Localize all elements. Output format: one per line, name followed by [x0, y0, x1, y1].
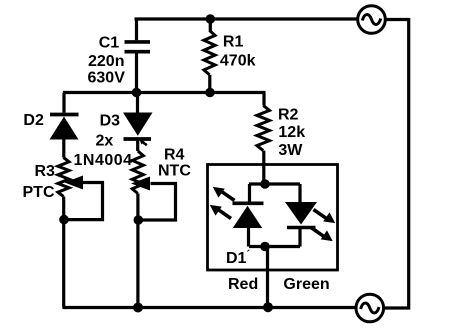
svg-text:470k: 470k: [220, 52, 256, 69]
resistor R1: [204, 19, 215, 93]
svg-text:2x: 2x: [96, 133, 114, 150]
wire LED inner bottom: [249, 245, 300, 248]
wire LED inner top: [249, 182, 300, 185]
svg-text:Red: Red: [228, 276, 258, 293]
svg-text:R4: R4: [164, 147, 185, 164]
wire bottom horizontal: [63, 306, 356, 309]
resistor R2: [257, 93, 270, 185]
junction R1 bottom: [205, 88, 215, 98]
AC source bottom: [356, 294, 384, 322]
resistor R3: [58, 158, 69, 308]
capacitor C1: [125, 19, 151, 93]
svg-text:D2: D2: [23, 112, 44, 129]
junction R4 hook: [134, 215, 144, 225]
svg-text:220n: 220n: [88, 53, 124, 70]
svg-text:Green: Green: [283, 276, 329, 293]
junction LED bottom: [260, 242, 270, 252]
LED red: [233, 184, 264, 247]
svg-text:3W: 3W: [278, 142, 303, 159]
svg-text:R2: R2: [278, 107, 299, 124]
thermistor arrow R4: [131, 177, 176, 221]
wire top horizontal: [135, 17, 358, 20]
resistor R4: [132, 151, 143, 308]
svg-text:PTC: PTC: [23, 184, 55, 201]
svg-text:R3: R3: [35, 163, 56, 180]
LED green emission arrows: [311, 210, 335, 242]
svg-text:D3: D3: [100, 113, 121, 130]
junction R3 hook: [59, 215, 69, 225]
wire LED to bottom rail: [266, 247, 269, 308]
AC source top: [358, 6, 386, 34]
diode D2: [50, 93, 79, 158]
junction bottom wire LED branch: [263, 302, 273, 312]
junction C1 bottom: [132, 88, 142, 98]
svg-text:12k: 12k: [278, 124, 305, 141]
junction bottom wire R4 branch: [133, 303, 143, 313]
wire middle horizontal: [63, 91, 266, 94]
svg-text:R1: R1: [223, 34, 244, 51]
svg-text:630V: 630V: [88, 70, 126, 87]
LED red emission arrows: [210, 187, 235, 219]
wire right rail: [384, 20, 409, 309]
junction LED top: [260, 179, 270, 189]
junction R1 top: [206, 14, 216, 24]
LED module box D1: [208, 165, 338, 271]
svg-text:C1: C1: [99, 35, 120, 52]
svg-text:1N4004: 1N4004: [74, 152, 133, 169]
svg-text:NTC: NTC: [158, 163, 191, 180]
diode D3: [123, 93, 153, 152]
thermistor arrow R3: [64, 176, 103, 220]
LED green: [285, 184, 317, 247]
